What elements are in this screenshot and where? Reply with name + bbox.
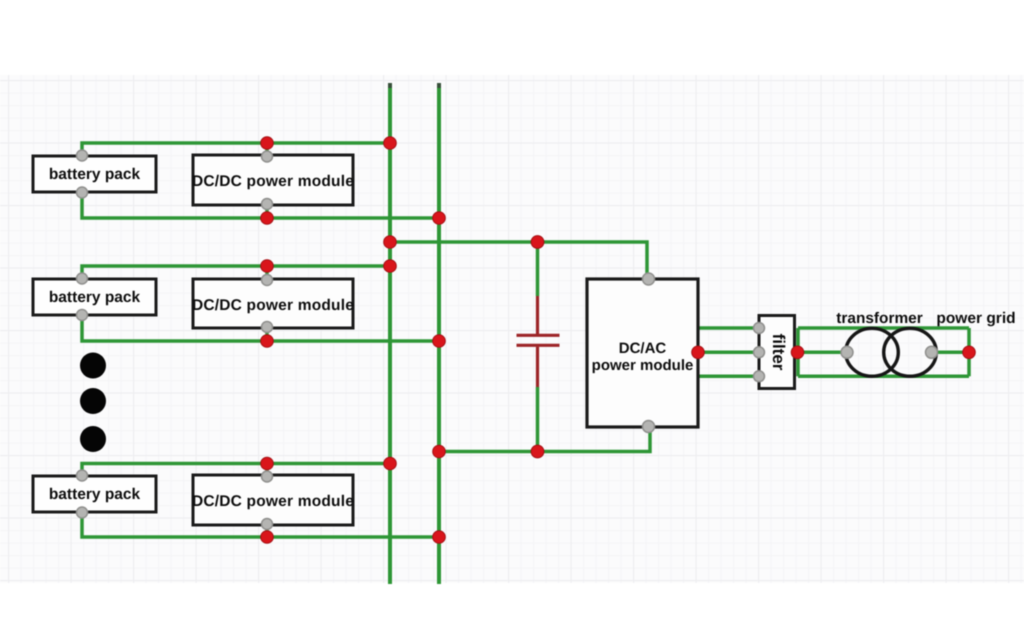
junction row3 bottom at DC/DC [261, 531, 274, 544]
junction row3 top at DC/DC [261, 457, 274, 470]
pin filter in C [754, 371, 765, 382]
wire row1 top [82, 143, 390, 162]
junction row1 top at DC/DC [261, 137, 274, 150]
pin battery3 top [77, 470, 88, 481]
pin DCDC3 bottom [262, 519, 273, 530]
wire row3 DC/DC top lead [265, 464, 269, 477]
ellipsis dot 3 [80, 426, 106, 452]
wire row2 DC/DC bottom lead [265, 327, 269, 341]
wire power grid vertical tie [967, 328, 971, 376]
junction capacitor top [531, 236, 544, 249]
pin transformer right [926, 346, 938, 358]
svg-text:DC/DC power module: DC/DC power module [192, 173, 354, 190]
wire filter to grid top [798, 326, 969, 330]
wire top DC link bus to DC/AC input [390, 242, 647, 280]
DC/DC power module 1 [192, 155, 354, 205]
transformer T1 [846, 328, 937, 376]
wire capacitor top lead [536, 242, 540, 296]
svg-text:DC/DC power module: DC/DC power module [192, 297, 354, 314]
svg-text:battery pack: battery pack [49, 289, 141, 306]
pin battery2 top [77, 273, 88, 284]
junction row1 top at V1 [384, 137, 397, 150]
label transformer [836, 310, 922, 327]
pin battery1 bottom [77, 187, 88, 198]
wire filter output vertical tie [796, 328, 800, 376]
node bus V1 (positive DC bus) [388, 83, 392, 584]
node bus V2 (negative DC bus) [437, 83, 441, 584]
DC/AC power module U1 [587, 279, 698, 427]
pin DCDC1 top [262, 151, 273, 162]
svg-text:battery pack: battery pack [49, 486, 141, 503]
wire row3 top [82, 464, 390, 483]
pin battery1 top [77, 150, 88, 161]
pin filter in A [754, 323, 765, 334]
svg-text:DC/AC: DC/AC [619, 340, 667, 357]
svg-text:battery pack: battery pack [49, 166, 141, 183]
battery pack 3 [33, 476, 156, 512]
pin DCDC3 top [262, 471, 273, 482]
wire transformer to power grid [931, 351, 969, 355]
wire row2 bottom [82, 310, 439, 341]
wire row1 DC/DC top lead [265, 143, 269, 156]
pin battery2 bottom [77, 310, 88, 321]
wire row1 DC/DC bottom lead [265, 204, 269, 218]
wire filter to transformer [798, 351, 848, 355]
junction row2 bottom at V2 [433, 335, 446, 348]
pin transformer left [841, 346, 853, 358]
wire row3 bottom [82, 508, 439, 537]
DC/DC power module 2 [192, 279, 354, 328]
junction V1 to DC link [384, 236, 397, 249]
junction row1 bottom at DC/DC [261, 212, 274, 225]
battery pack 1 [33, 156, 156, 192]
junction row3 top at V1 [384, 457, 397, 470]
junction row2 top at V1 [384, 260, 397, 273]
wire row1 bottom [82, 188, 439, 218]
wire row2 DC/DC top lead [265, 266, 269, 280]
battery pack 2 [33, 279, 156, 315]
wire DC/AC output phase A [698, 326, 759, 330]
wire DC/AC output phase C [698, 375, 759, 379]
svg-text:power grid: power grid [936, 310, 1015, 327]
svg-text:filter: filter [769, 334, 788, 371]
pin DCDC1 bottom [262, 199, 273, 210]
svg-text:DC/DC power module: DC/DC power module [192, 493, 354, 510]
DC/DC power module 3 [192, 475, 354, 525]
pin DCDC2 top [262, 275, 273, 286]
junction row3 bottom at V2 [433, 531, 446, 544]
wire row2 top [82, 266, 390, 285]
svg-text:transformer: transformer [836, 310, 922, 327]
wire row3 DC/DC bottom lead [265, 524, 269, 537]
wire filter to grid bottom [798, 375, 969, 379]
junction capacitor bottom [531, 445, 544, 458]
junction power grid [963, 346, 976, 359]
ellipsis dot 1 [80, 353, 106, 379]
wire bottom DC link bus to DC/AC input [439, 426, 650, 452]
ellipsis dot 2 [80, 388, 106, 414]
junction V2 to DC link [433, 445, 446, 458]
junction row2 bottom at DC/DC [261, 335, 274, 348]
filter F1 [759, 316, 795, 389]
svg-text:power module: power module [592, 357, 694, 374]
wire DC/AC output phase B [698, 351, 759, 355]
junction row2 top at DC/DC [261, 260, 274, 273]
wire capacitor bottom lead [536, 387, 540, 452]
pin filter in B [754, 347, 765, 358]
label power grid [936, 310, 1015, 327]
pin DC/AC bottom [643, 421, 655, 433]
capacitor C1 [517, 296, 560, 387]
pin DCDC2 bottom [262, 322, 273, 333]
pin DC/AC top [643, 273, 655, 285]
junction row1 bottom at V2 [433, 212, 446, 225]
junction filter output [791, 346, 804, 359]
junction DC/AC output [692, 346, 705, 359]
pin battery3 bottom [77, 507, 88, 518]
